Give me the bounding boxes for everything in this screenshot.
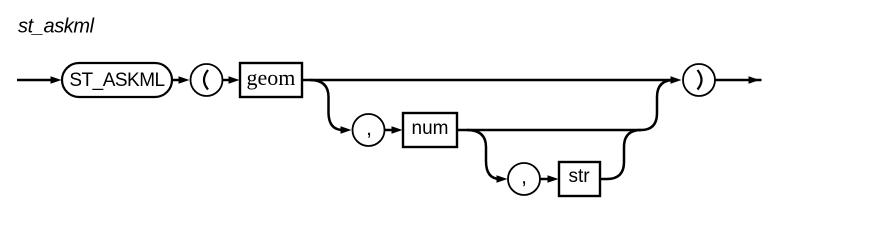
wire comma to num bbox=[385, 126, 403, 134]
nonterminal geom bbox=[240, 63, 302, 97]
svg-text:ST_ASKML: ST_ASKML bbox=[69, 70, 164, 91]
branch wire down to comma row 3 bbox=[467, 130, 508, 183]
svg-text:,: , bbox=[366, 117, 372, 140]
wire pill to lparen bbox=[172, 76, 190, 84]
end wire with arrow bbox=[716, 76, 762, 84]
svg-text:st_askml: st_askml bbox=[18, 16, 95, 38]
token comma circle row 2 bbox=[353, 114, 385, 146]
nonterminal str bbox=[559, 162, 600, 196]
main rail wire to rparen bbox=[302, 76, 682, 84]
branch wire down to comma row 2 bbox=[310, 80, 352, 134]
start wire bbox=[17, 76, 62, 84]
token rparen circle bbox=[683, 64, 715, 96]
title st_askml bbox=[18, 16, 95, 38]
svg-text:,: , bbox=[521, 166, 527, 189]
svg-text:geom: geom bbox=[247, 65, 296, 90]
wire str return up to row 2 bbox=[600, 130, 641, 179]
nonterminal num bbox=[403, 113, 457, 147]
svg-text:num: num bbox=[412, 118, 449, 139]
terminal ST_ASKML bbox=[62, 63, 172, 97]
svg-text:str: str bbox=[568, 166, 590, 187]
token lparen circle bbox=[191, 64, 223, 96]
wire comma to str bbox=[540, 175, 559, 183]
token comma circle row 3 bbox=[508, 163, 540, 195]
wire lparen to geom bbox=[223, 76, 240, 84]
rail row 2 wire bbox=[457, 129, 641, 132]
wire row 2 return up to main rail bbox=[641, 80, 674, 130]
